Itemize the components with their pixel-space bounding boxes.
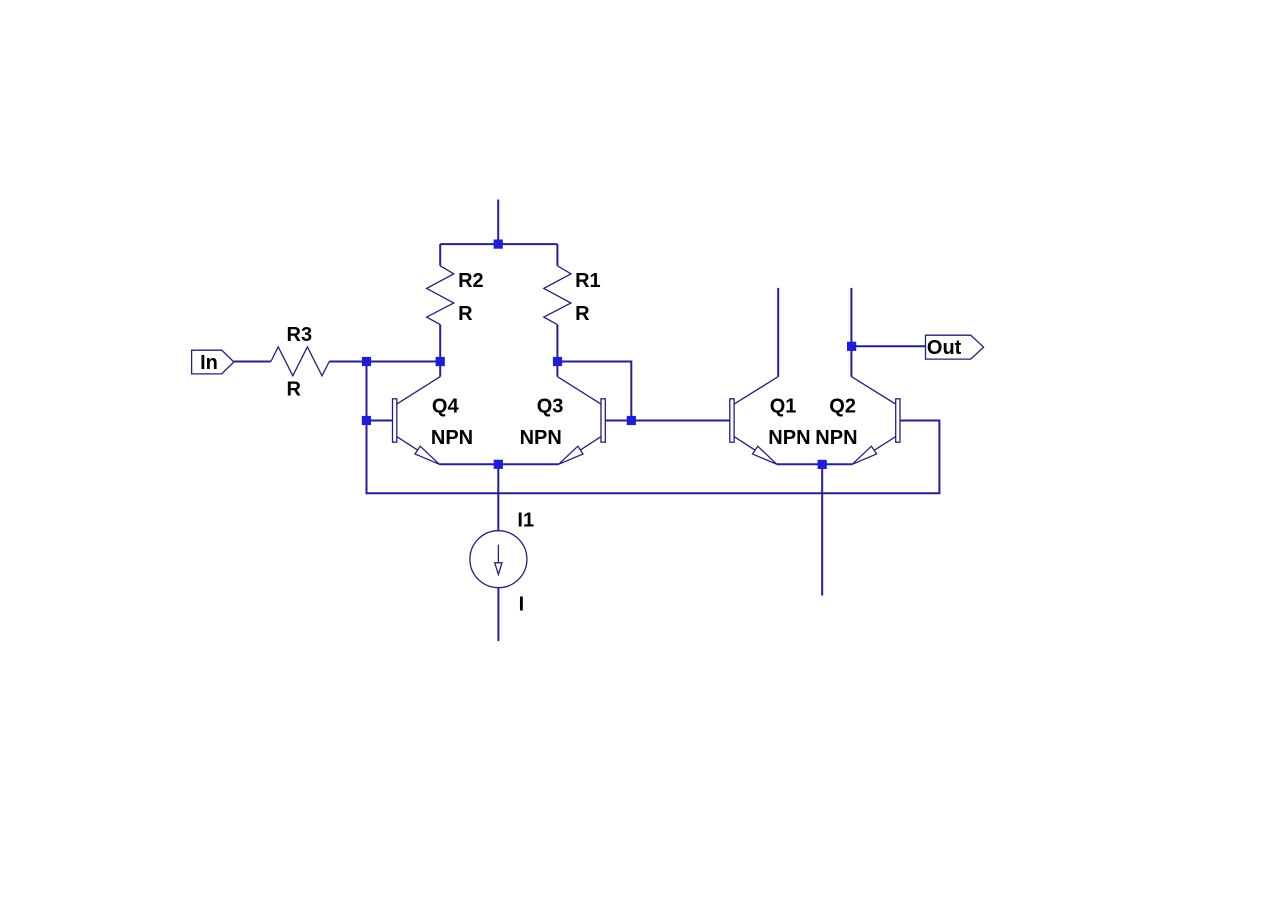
wire: [821, 464, 823, 595]
wire: [556, 325, 558, 362]
node: [847, 342, 856, 351]
wire: [440, 243, 557, 245]
wire: [234, 361, 271, 363]
svg-text:Out: Out: [927, 337, 962, 359]
svg-text:NPN: NPN: [431, 427, 473, 449]
wire: [631, 420, 730, 422]
svg-text:NPN: NPN: [520, 427, 562, 449]
svg-text:NPN: NPN: [768, 427, 810, 449]
svg-text:R2: R2: [458, 270, 484, 292]
transistor Q3: [557, 362, 605, 465]
wire: [605, 420, 631, 422]
wire: [852, 345, 926, 347]
wire: [367, 362, 940, 494]
svg-text:In: In: [200, 352, 218, 374]
resistor R1: [544, 266, 571, 325]
transistor Q4: [393, 362, 441, 465]
wire: [497, 588, 499, 641]
current source I1: [470, 531, 527, 588]
node: [553, 357, 562, 366]
transistor Q2: [851, 377, 900, 465]
svg-text:R: R: [287, 379, 302, 401]
svg-text:Q1: Q1: [770, 396, 797, 418]
resistor R3: [271, 347, 329, 376]
svg-text:R: R: [575, 303, 590, 325]
node: [627, 416, 636, 425]
node: [362, 416, 371, 425]
svg-text:R3: R3: [287, 324, 313, 346]
wire: [777, 463, 822, 465]
resistor R2: [427, 266, 454, 325]
wire: [557, 362, 631, 421]
wire: [439, 244, 441, 266]
port In: [192, 350, 234, 374]
wire: [556, 244, 558, 266]
svg-text:I: I: [519, 593, 525, 615]
svg-text:I1: I1: [517, 509, 534, 531]
node: [362, 357, 371, 366]
wire: [439, 463, 558, 465]
node: [494, 460, 503, 469]
wire: [439, 325, 441, 362]
svg-text:Q2: Q2: [829, 396, 856, 418]
port Out: [926, 335, 984, 359]
wire: [329, 361, 440, 363]
wire: [497, 464, 499, 530]
wire: [777, 288, 779, 377]
svg-text:R1: R1: [575, 270, 601, 292]
svg-text:NPN: NPN: [815, 427, 857, 449]
wire: [822, 463, 852, 465]
svg-text:R: R: [458, 303, 473, 325]
svg-text:Q3: Q3: [537, 396, 564, 418]
wire: [850, 288, 852, 377]
node: [818, 460, 827, 469]
svg-text:Q4: Q4: [432, 396, 460, 418]
node: [494, 240, 503, 249]
wire: [497, 200, 499, 245]
wire: [366, 420, 392, 422]
node: [436, 357, 445, 366]
transistor Q1: [730, 377, 778, 465]
